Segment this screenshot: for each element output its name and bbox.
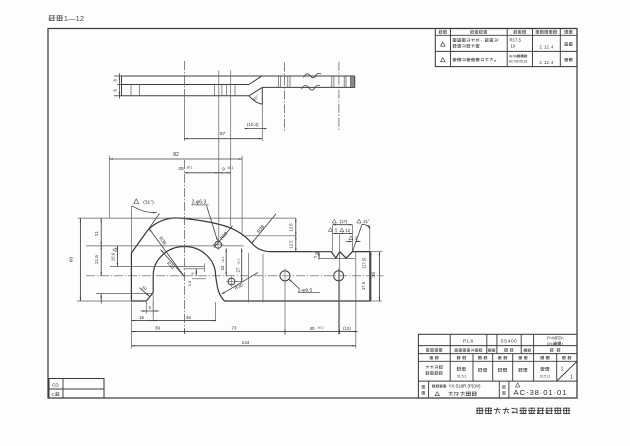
svg-text:±0.1: ±0.1 bbox=[236, 258, 240, 264]
svg-text:AC-38·01·01: AC-38·01·01 bbox=[514, 388, 568, 397]
svg-text:2. 12. 4: 2. 12. 4 bbox=[539, 45, 554, 50]
svg-text:33: 33 bbox=[220, 265, 225, 270]
svg-text:P=MFEn: P=MFEn bbox=[547, 335, 564, 340]
svg-text:(17.5): (17.5) bbox=[361, 257, 366, 268]
svg-text:W-5R: W-5R bbox=[509, 54, 518, 58]
svg-text:17.5: 17.5 bbox=[361, 281, 366, 290]
svg-text:R17.5: R17.5 bbox=[510, 38, 522, 43]
svg-text:(31°): (31°) bbox=[143, 199, 154, 205]
svg-text:73: 73 bbox=[232, 326, 237, 331]
svg-text:(10.4): (10.4) bbox=[247, 122, 259, 127]
svg-text:5: 5 bbox=[313, 256, 317, 258]
svg-text:SS400: SS400 bbox=[500, 339, 517, 344]
svg-text:25: 25 bbox=[178, 166, 184, 172]
svg-text:21°: 21° bbox=[363, 219, 370, 224]
svg-text:9: 9 bbox=[222, 166, 225, 172]
svg-text:82: 82 bbox=[173, 152, 179, 158]
svg-text:21: 21 bbox=[94, 231, 99, 237]
svg-text:12.5: 12.5 bbox=[288, 240, 293, 249]
svg-text:1: 1 bbox=[570, 375, 573, 381]
svg-text:1.5: 1.5 bbox=[187, 280, 192, 286]
svg-text:CD: CD bbox=[52, 382, 59, 387]
svg-text:AC-09.05.01: AC-09.05.01 bbox=[509, 59, 528, 63]
svg-text:PL6: PL6 bbox=[463, 339, 474, 345]
svg-text:15.6: 15.6 bbox=[110, 252, 115, 261]
svg-text:±0.1: ±0.1 bbox=[227, 166, 233, 170]
svg-text:144: 144 bbox=[242, 340, 250, 345]
svg-text:21.5: 21.5 bbox=[94, 255, 99, 264]
svg-text:46: 46 bbox=[186, 315, 191, 320]
svg-text:01.5.1: 01.5.1 bbox=[457, 375, 467, 379]
svg-text:12: 12 bbox=[345, 228, 350, 233]
svg-text:10: 10 bbox=[511, 44, 516, 49]
svg-text:60: 60 bbox=[68, 257, 73, 263]
svg-text:2. 12. 4: 2. 12. 4 bbox=[539, 60, 554, 65]
svg-text:1—12: 1—12 bbox=[64, 14, 84, 23]
svg-text:35: 35 bbox=[371, 272, 376, 277]
svg-text:±0.1: ±0.1 bbox=[186, 165, 192, 169]
svg-text:01.5.11: 01.5.11 bbox=[540, 375, 551, 379]
svg-text:27: 27 bbox=[235, 267, 240, 272]
svg-text:(12): (12) bbox=[343, 326, 351, 331]
svg-text:(17): (17) bbox=[340, 219, 348, 224]
svg-text:39: 39 bbox=[155, 326, 160, 331]
svg-text:±0.2: ±0.2 bbox=[318, 326, 324, 330]
svg-text:12.5: 12.5 bbox=[288, 223, 293, 232]
svg-text:1: 1 bbox=[561, 367, 564, 373]
svg-text:40: 40 bbox=[309, 326, 315, 331]
svg-text:57: 57 bbox=[220, 131, 226, 137]
svg-text:YX-518R (P)(W): YX-518R (P)(W) bbox=[449, 384, 481, 389]
svg-text:±0.1: ±0.1 bbox=[221, 256, 225, 262]
svg-text:16: 16 bbox=[139, 315, 144, 320]
